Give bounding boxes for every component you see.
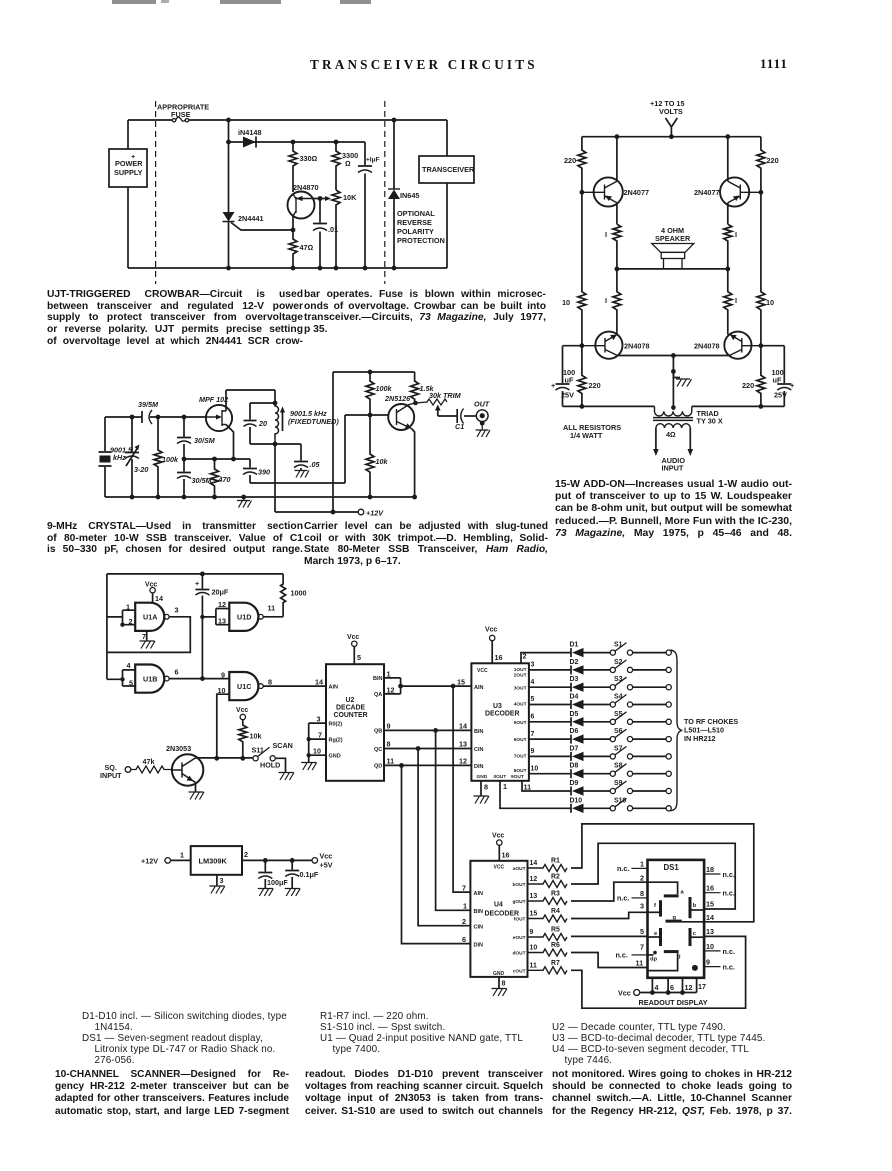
svg-text:+: +: [195, 579, 199, 588]
wire: row 7: [529, 755, 666, 757]
svg-text:e: e: [654, 931, 658, 937]
svg-text:10: 10: [530, 945, 538, 952]
svg-text:S2: S2: [614, 659, 623, 666]
svg-text:12: 12: [685, 983, 693, 992]
svg-text:4OUT: 4OUT: [514, 701, 527, 707]
transformer TRIAD TY30X primary: [655, 406, 692, 416]
svg-text:3: 3: [220, 876, 224, 885]
connector OUT: [476, 410, 488, 422]
JFET MPF102: [206, 405, 232, 431]
svg-text:8: 8: [640, 889, 644, 898]
svg-text:FUSE: FUSE: [171, 110, 191, 119]
resistor R3: [528, 898, 568, 905]
node: [331, 510, 336, 515]
svg-text:n.c.: n.c.: [617, 864, 629, 873]
node: [318, 266, 323, 271]
wire: top rail 2: [333, 371, 415, 373]
svg-text:14: 14: [155, 594, 163, 603]
svg-text:2N4078: 2N4078: [624, 342, 650, 351]
svg-text:7: 7: [318, 731, 322, 740]
svg-text:13: 13: [530, 893, 538, 900]
diode D9: [570, 787, 572, 796]
svg-text:+: +: [790, 381, 794, 390]
segment a: [664, 894, 679, 897]
transceiver box: [446, 120, 448, 268]
svg-text:4: 4: [655, 983, 659, 992]
node: [392, 266, 397, 271]
n.c. stub pin8: [632, 897, 648, 899]
svg-text:R6: R6: [551, 942, 560, 949]
node: [307, 737, 311, 741]
svg-text:2N4441: 2N4441: [238, 214, 264, 223]
terminal Vcc of display: [634, 990, 640, 996]
wire: U1A output feedback: [107, 617, 190, 653]
svg-text:GND: GND: [477, 774, 488, 780]
wire: row 5: [529, 721, 666, 723]
switch S9: [610, 788, 615, 793]
wire: top rail: [582, 136, 761, 138]
wire: QA to U3 AIN: [401, 685, 472, 687]
node: [433, 728, 438, 733]
resistor R6: [528, 949, 568, 956]
svg-text:kHz: kHz: [113, 453, 126, 462]
svg-text:12: 12: [459, 757, 467, 766]
node: [725, 134, 730, 139]
wire: row 4: [529, 704, 666, 706]
node: [334, 266, 339, 271]
svg-text:VOLTS: VOLTS: [659, 107, 683, 116]
svg-text:7: 7: [142, 632, 146, 641]
svg-text:7: 7: [531, 731, 535, 738]
n.c. stub pin7: [632, 954, 648, 956]
ground on bottom rail: [237, 497, 252, 508]
diode D5: [570, 717, 572, 726]
wire: UJT emitter to pot wiper: [313, 198, 326, 200]
svg-text:DECADE: DECADE: [336, 705, 366, 712]
wire: row 3: [529, 686, 666, 688]
UJT 2N4870: [288, 192, 315, 219]
svg-text:D7: D7: [570, 745, 579, 752]
switch S4: [610, 702, 615, 707]
svg-text:.05: .05: [310, 460, 321, 469]
switch S7: [610, 754, 615, 759]
resistor R7: [528, 967, 568, 974]
node: [615, 134, 620, 139]
svg-text:R0(2): R0(2): [329, 721, 343, 727]
op-amp U1D nand gate: [229, 603, 258, 631]
svg-text:S5: S5: [614, 711, 623, 718]
node: [759, 190, 764, 195]
wire: scan line: [196, 757, 254, 759]
wire: pin13 to segment c: [690, 936, 704, 938]
svg-text:R5: R5: [551, 927, 560, 934]
svg-text:9: 9: [221, 671, 225, 680]
svg-text:uF: uF: [773, 376, 782, 385]
node: [226, 140, 231, 145]
svg-text:390: 390: [258, 468, 270, 477]
wire: pin14 to segment g: [682, 921, 704, 923]
wire: bus vertical QC to U4 CIN: [418, 749, 470, 926]
svg-text:8: 8: [502, 979, 506, 988]
segment g: [666, 920, 682, 923]
wire: oscillator top rail: [107, 573, 283, 575]
svg-text:U4: U4: [494, 902, 503, 909]
node: [671, 369, 676, 374]
svg-text:6: 6: [175, 668, 179, 677]
resistor 1 lower-left: [613, 269, 621, 332]
resistor 47k: [131, 766, 172, 773]
svg-text:17: 17: [698, 982, 706, 991]
svg-text:20: 20: [258, 419, 267, 428]
svg-text:COUNTER: COUNTER: [334, 712, 368, 719]
svg-text:10k: 10k: [250, 732, 262, 741]
node: [120, 677, 124, 681]
svg-text:15: 15: [706, 900, 714, 909]
svg-text:U1B: U1B: [143, 674, 157, 683]
svg-text:Vcc: Vcc: [236, 707, 248, 714]
svg-text:fOUT: fOUT: [514, 917, 526, 923]
transistor 2N3053: [172, 754, 203, 785]
wire: R7 to DS1: [571, 936, 746, 1008]
wire: row 10: [559, 807, 667, 809]
svg-text:a: a: [681, 890, 685, 896]
wire: hold contact to ground: [275, 758, 285, 772]
caption: scanner col2: [305, 1069, 543, 1118]
svg-text:14: 14: [315, 678, 323, 687]
svg-text:470: 470: [218, 475, 231, 484]
resistor 10 left: [578, 192, 586, 345]
node: [669, 134, 674, 139]
svg-text:6OUT: 6OUT: [514, 737, 527, 743]
svg-text:HOLD: HOLD: [260, 761, 280, 770]
capacitor 20: [244, 403, 257, 444]
SVG-C4B: [616, 860, 735, 1008]
diode D2: [570, 665, 572, 674]
switch S6: [610, 737, 615, 742]
svg-text:Vcc: Vcc: [618, 989, 631, 998]
node: [666, 990, 671, 995]
wire: emitter rail: [618, 355, 730, 357]
svg-text:CIN: CIN: [474, 924, 484, 930]
decimal point dot: [692, 965, 698, 971]
capacitor 100uF 25V left: [556, 346, 582, 407]
svg-text:D1: D1: [570, 642, 579, 649]
wire: bus vertical QA to U4 AIN: [453, 686, 470, 892]
svg-text:R2: R2: [551, 874, 560, 881]
svg-text:10K: 10K: [343, 193, 357, 202]
resistor 1.5k: [411, 372, 419, 403]
node: [291, 140, 296, 145]
node: [580, 190, 585, 195]
transistor 2N4078 left: [595, 332, 622, 359]
wire: R6 to DS1: [571, 953, 648, 968]
wire: U1B output: [169, 678, 229, 680]
svg-text:S9: S9: [614, 780, 623, 787]
svg-text:0.1μF: 0.1μF: [300, 870, 319, 879]
svg-text:S6: S6: [614, 728, 623, 735]
wire: R2 to DS1: [571, 843, 735, 909]
input terminal SQ INPUT: [125, 767, 131, 773]
wire: pin5 to segment e: [648, 936, 661, 938]
pin 16 Vcc of U3: [491, 641, 493, 664]
diode D3: [570, 683, 572, 692]
svg-text:12: 12: [530, 876, 538, 883]
svg-text:30/SM: 30/SM: [194, 436, 216, 445]
node: [363, 266, 368, 271]
caption: 9-MHz crystal, left column: [47, 521, 303, 556]
svg-text:U1C: U1C: [237, 682, 251, 691]
resistor R2: [528, 881, 568, 888]
wire: U1A inputs: [107, 610, 135, 625]
svg-text:11: 11: [530, 963, 537, 970]
svg-text:eOUT: eOUT: [513, 935, 526, 941]
capacitor 100uF: [258, 860, 272, 888]
node: [156, 415, 161, 420]
svg-text:gOUT: gOUT: [512, 899, 525, 905]
svg-text:D3: D3: [570, 676, 579, 683]
wire: emitter to bottom rail: [412, 429, 415, 498]
wire: SCR gate line: [231, 223, 293, 231]
resistor 220 lower-right: [757, 346, 765, 407]
svg-text:16: 16: [495, 653, 503, 662]
node: [451, 684, 456, 689]
svg-text:2N4078: 2N4078: [694, 342, 720, 351]
svg-text:VCC: VCC: [494, 864, 505, 870]
capacitor 30/5M upper: [177, 417, 191, 459]
capacitor C1: [438, 409, 457, 423]
wire: U2 BIN-QA tie: [384, 678, 401, 694]
svg-text:25V: 25V: [561, 391, 574, 400]
resistor 220 top-right: [757, 137, 765, 193]
wire: lower-left collector lead: [617, 332, 728, 335]
svg-text:3: 3: [317, 715, 321, 724]
svg-text:INPUT: INPUT: [662, 464, 684, 473]
brace to RF chokes: [671, 650, 683, 811]
variable capacitor 3-20: [125, 417, 139, 497]
svg-text:9OUT: 9OUT: [511, 774, 524, 780]
pin 5 Vcc of U2: [353, 647, 355, 665]
transformer secondary: [656, 424, 690, 428]
svg-text:S10: S10: [614, 797, 626, 804]
svg-text:3OUT: 3OUT: [514, 685, 527, 691]
inductor 9001.5 kHz fixed tuned: [275, 403, 279, 444]
node: [214, 756, 219, 761]
svg-text:D4: D4: [570, 694, 579, 701]
wire: U1C output to U2 AIN: [263, 685, 326, 687]
svg-text:15: 15: [530, 911, 538, 918]
node: [182, 457, 187, 462]
IC U3 decoder: [471, 663, 529, 781]
node: [200, 572, 205, 577]
svg-text:OUT: OUT: [474, 400, 490, 409]
node: [318, 196, 323, 201]
svg-text:2OUT: 2OUT: [514, 673, 527, 679]
svg-text:aOUT: aOUT: [513, 866, 526, 872]
SVG-C1: [551, 99, 794, 473]
resistor 10k: [239, 720, 247, 759]
wire: row 8: [529, 773, 666, 775]
node: [291, 266, 296, 271]
node: [398, 684, 403, 689]
ground at U4 pin 8: [498, 977, 500, 988]
svg-text:U2: U2: [346, 697, 355, 704]
wire: left feedback vertical: [106, 574, 108, 679]
svg-text:I: I: [605, 296, 607, 305]
node: [368, 370, 373, 375]
wire: crowbar top rail: [128, 119, 447, 121]
node: [273, 401, 278, 406]
wire: row 6: [529, 738, 666, 740]
svg-text:MPF 102: MPF 102: [199, 395, 228, 404]
resistor 470: [211, 459, 219, 497]
resistor 10 right: [757, 192, 765, 345]
IC U4 decoder: [470, 861, 527, 977]
svg-text:3: 3: [531, 662, 535, 669]
node: [120, 623, 124, 627]
wire: 1N4148 horizontal line: [229, 141, 366, 143]
wire: bottom rail: [563, 405, 785, 407]
caption: crowbar, right column: [304, 289, 546, 336]
svg-text:9: 9: [706, 958, 710, 967]
node: [671, 353, 676, 358]
switch S10: [610, 806, 615, 811]
parts list column 1: [82, 1011, 300, 1067]
svg-text:10: 10: [766, 298, 774, 307]
svg-text:READOUT DISPLAY: READOUT DISPLAY: [639, 998, 708, 1007]
svg-text:R1: R1: [551, 858, 560, 865]
resistor 100k (base): [366, 372, 374, 415]
node: [231, 457, 236, 462]
svg-text:5: 5: [357, 653, 361, 662]
svg-text:4: 4: [127, 661, 131, 670]
node: [212, 457, 217, 462]
wire: pin11 to segment d: [648, 953, 678, 970]
svg-text:2N4870: 2N4870: [293, 183, 319, 192]
segment f: [659, 900, 662, 916]
svg-text:2: 2: [462, 917, 466, 926]
resistor 1 lower-right: [724, 269, 732, 332]
svg-text:Vcc: Vcc: [145, 582, 157, 589]
trimmer 30k TRIM: [416, 399, 448, 405]
resistor 1 upper-left: [613, 224, 621, 269]
svg-text:SCAN: SCAN: [273, 741, 293, 750]
svg-text:14: 14: [706, 913, 714, 922]
diode D10: [570, 804, 572, 813]
capacitor 0.1uF: [285, 860, 299, 888]
svg-text:R4: R4: [551, 908, 560, 915]
wire: source rail A: [184, 458, 250, 460]
wire: R5 to DS1: [571, 935, 648, 937]
svg-text:14: 14: [459, 722, 467, 731]
svg-text:IN HR212: IN HR212: [684, 734, 716, 743]
svg-text:Vcc: Vcc: [492, 833, 504, 840]
svg-text:10: 10: [531, 765, 539, 772]
node: [130, 415, 135, 420]
node: [240, 756, 245, 761]
svg-text:GND: GND: [329, 754, 341, 760]
ground below .05: [295, 471, 310, 478]
resistor 220 lower-left: [578, 346, 586, 407]
node row on bottom rail: [226, 266, 231, 271]
diode 1N4148: [243, 137, 256, 148]
caption: 10-channel scanner col1: [55, 1069, 289, 1118]
svg-text:.01: .01: [328, 225, 338, 234]
node: [307, 753, 311, 757]
segment d: [664, 950, 679, 953]
node: [241, 495, 246, 500]
svg-text:1: 1: [463, 902, 467, 911]
wire: drain rail: [226, 390, 275, 403]
svg-text:AIN: AIN: [329, 685, 339, 691]
svg-text:2: 2: [129, 617, 133, 626]
wire: pin2 to segment a: [648, 882, 678, 894]
n.c. stub pin16: [704, 892, 720, 894]
svg-text:SUPPLY: SUPPLY: [114, 168, 143, 177]
svg-text:1: 1: [640, 860, 644, 869]
svg-text:47Ω: 47Ω: [300, 243, 314, 252]
ground at center: [673, 371, 680, 377]
parts list column 2: [320, 1011, 534, 1056]
svg-text:5: 5: [129, 679, 133, 688]
node: [480, 421, 485, 426]
svg-text:5OUT: 5OUT: [514, 720, 527, 726]
wire: DS1 bottom pins to Vcc bus: [652, 978, 696, 993]
svg-text:D2: D2: [570, 659, 579, 666]
svg-text:5: 5: [640, 927, 644, 936]
svg-text:18: 18: [706, 865, 714, 874]
wire: power supply leads: [127, 120, 129, 268]
resistor 1000: [281, 574, 286, 617]
wire: Vcc bus: [640, 992, 697, 994]
svg-text:U1D: U1D: [237, 613, 251, 622]
svg-text:14: 14: [530, 860, 538, 867]
resistor 1 upper-right: [724, 224, 732, 269]
resistor 100k: [154, 417, 162, 497]
svg-text:R7: R7: [551, 960, 560, 967]
node: [416, 746, 421, 751]
svg-text:11: 11: [524, 783, 532, 792]
svg-text:100μF: 100μF: [267, 878, 288, 887]
switch S2: [610, 667, 615, 672]
svg-text:C1: C1: [455, 422, 464, 431]
node: [580, 404, 585, 409]
svg-text:IN645: IN645: [400, 191, 419, 200]
wire: R1 to DS1: [571, 824, 754, 922]
svg-text:PROTECTION: PROTECTION: [397, 236, 445, 245]
svg-text:n.c.: n.c.: [723, 889, 735, 898]
wire: R3 to DS1: [571, 882, 648, 901]
resistor R5: [528, 934, 568, 941]
svg-text:DS1: DS1: [664, 863, 680, 872]
svg-text:10k: 10k: [376, 457, 389, 466]
svg-text:7: 7: [640, 943, 644, 952]
segment e: [659, 928, 662, 946]
svg-text:10: 10: [706, 942, 714, 951]
svg-text:REVERSE: REVERSE: [397, 218, 432, 227]
power supply box: [109, 149, 147, 187]
svg-text:cOUT: cOUT: [513, 969, 526, 975]
svg-text:DIN: DIN: [474, 942, 484, 948]
node: [273, 442, 278, 447]
wire: QC to U3 CIN: [384, 748, 471, 750]
svg-text:(FIXEDTUNED): (FIXEDTUNED): [288, 417, 339, 426]
wire: feedback lower rail: [250, 415, 345, 483]
svg-text:10: 10: [562, 298, 570, 307]
SVG-C2: [99, 370, 491, 518]
svg-text:1: 1: [126, 603, 130, 612]
svg-text:BIN: BIN: [373, 676, 383, 682]
wire: UJT B1 to junction: [292, 216, 294, 230]
